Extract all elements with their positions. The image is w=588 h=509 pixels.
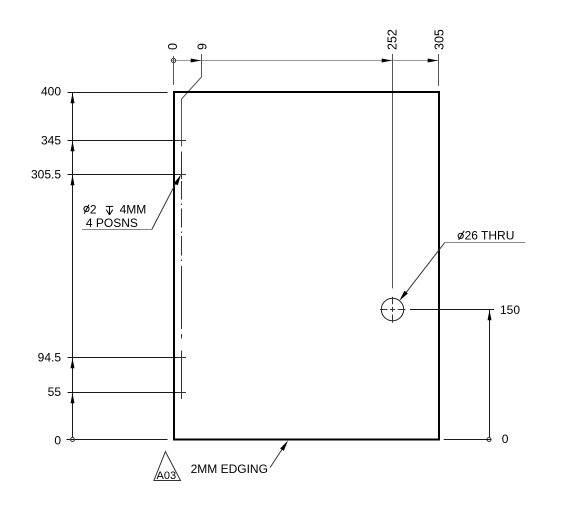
- svg-text:2: 2: [90, 202, 97, 216]
- svg-text:400: 400: [41, 84, 61, 98]
- svg-text:55: 55: [48, 385, 62, 399]
- svg-text:0: 0: [502, 432, 509, 446]
- svg-text:A03: A03: [157, 470, 177, 482]
- svg-text:0: 0: [54, 434, 61, 448]
- svg-text:0: 0: [166, 43, 180, 50]
- svg-text:252: 252: [386, 29, 400, 50]
- svg-text:2MM EDGING: 2MM EDGING: [191, 462, 268, 476]
- svg-text:94.5: 94.5: [38, 350, 62, 364]
- svg-text:150: 150: [500, 303, 520, 317]
- svg-text:4 POSNS: 4 POSNS: [86, 216, 138, 230]
- svg-text:9: 9: [196, 43, 210, 50]
- svg-text:4MM: 4MM: [120, 202, 147, 216]
- svg-text:26 THRU: 26 THRU: [465, 229, 515, 243]
- svg-text:345: 345: [41, 133, 61, 147]
- svg-text:305.5: 305.5: [31, 168, 61, 182]
- svg-text:305: 305: [432, 29, 446, 50]
